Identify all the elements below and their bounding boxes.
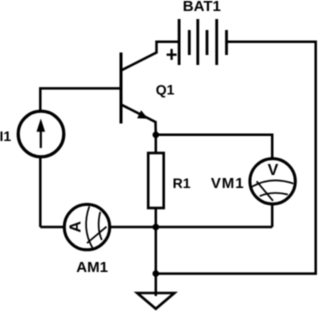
ground node junction dot	[153, 270, 160, 277]
svg-text:Q1: Q1	[156, 81, 175, 97]
voltmeter VM1	[250, 159, 295, 204]
svg-text:BAT1: BAT1	[183, 0, 221, 15]
svg-text:I1: I1	[0, 128, 11, 144]
resistor R1	[148, 153, 164, 208]
wire: R1 bottom to bottom bus	[155, 207, 158, 228]
wire: bottom bus left (I1 to AM1)	[40, 226, 64, 229]
wire: node A to VM1 top	[156, 135, 272, 159]
svg-text:VM1: VM1	[211, 175, 245, 192]
battery plus sign	[167, 49, 177, 60]
wire: I1 top to Q1 base	[40, 88, 121, 112]
wire: ground node to ground symbol	[155, 274, 158, 296]
svg-text:AM1: AM1	[76, 259, 108, 276]
ammeter AM1	[64, 204, 109, 249]
battery BAT1	[179, 19, 226, 65]
wire: bottom bus (AM1 to VM1 bottom)	[109, 226, 273, 229]
wire: node A to R1 top	[155, 135, 158, 154]
wire: bottom bus node to ground node	[155, 227, 158, 274]
bottom bus junction dot	[153, 224, 160, 231]
svg-text:A: A	[68, 221, 85, 233]
wire: Q1 emitter to node A	[154, 121, 157, 136]
wire: BAT1 negative to right rail down to ground bus	[156, 42, 316, 274]
ground	[137, 293, 174, 309]
node A junction dot	[153, 132, 160, 139]
wire: I1 bottom to bottom bus	[39, 156, 42, 227]
current source I1	[18, 111, 64, 157]
svg-text:R1: R1	[173, 175, 191, 191]
wire: Q1 collector step to BAT1 positive	[157, 42, 180, 54]
wire: VM1 bottom to bottom bus	[271, 203, 274, 227]
transistor Q1	[121, 53, 157, 124]
svg-text:V: V	[268, 162, 279, 179]
